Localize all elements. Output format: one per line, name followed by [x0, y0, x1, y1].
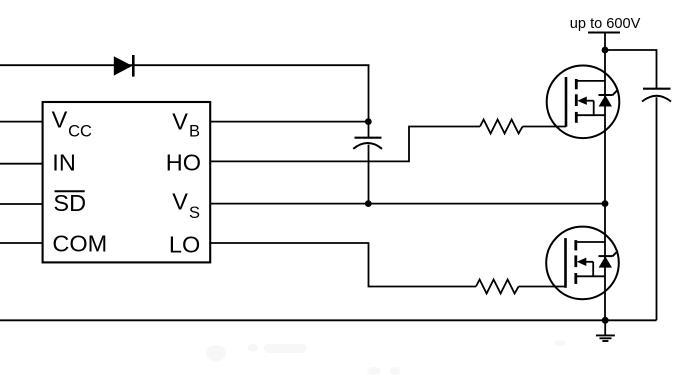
Q1 source stub — [576, 114, 605, 116]
Q2 channel dash bottom — [574, 273, 577, 284]
wire: bootstrap vertical (top rail down to cap) — [368, 65, 370, 137]
svg-text:SD: SD — [53, 190, 86, 216]
Q2 channel dash middle — [574, 255, 577, 267]
transistor Q2 low-side MOSFET — [546, 227, 619, 300]
Q1 body arrow — [580, 100, 594, 102]
wire: HO pin to high-side gate resistor — [209, 127, 480, 162]
svg-text:HO: HO — [166, 150, 201, 176]
node: VS bootstrap-return junction — [365, 200, 372, 207]
svg-text:IN: IN — [52, 149, 76, 175]
Q2 gate bar — [564, 238, 567, 288]
diode D1 bootstrap — [114, 55, 135, 77]
node: ground junction — [602, 317, 609, 324]
Q1 channel dash top — [575, 79, 578, 89]
Q2 body arrow — [580, 261, 594, 263]
wire: COM input — [0, 242, 42, 244]
node: VS half-bridge junction — [602, 200, 609, 207]
transistor Q1 high-side MOSFET — [547, 66, 620, 139]
wire: bootstrap cap to VS rail — [368, 145, 370, 204]
svg-text:COM: COM — [52, 231, 107, 257]
pin label SD overline — [55, 190, 85, 192]
wire: bus capacitor to ground rail — [656, 97, 658, 320]
svg-text:LO: LO — [169, 231, 200, 257]
capacitor C2 bus: curved bottom plate — [642, 96, 671, 102]
Q2 drain stub — [576, 241, 605, 243]
wire: HV node to bus capacitor — [605, 50, 657, 88]
wire: top bootstrap supply rail — [0, 64, 370, 66]
Q1 channel dash bottom — [575, 112, 578, 123]
capacitor C1 bootstrap: curved bottom plate — [353, 143, 382, 149]
capacitor C1 bootstrap: top plate — [355, 137, 382, 139]
Q1 gate bar — [565, 77, 568, 127]
Q1 body-to-source link — [593, 101, 595, 116]
Q2 body-to-source link — [592, 262, 594, 277]
svg-text:up to 600V: up to 600V — [570, 16, 641, 32]
Q2 body circle — [546, 227, 619, 300]
wire: LO pin to low-side gate resistor — [209, 243, 476, 287]
capacitor C2 bus: top plate — [643, 88, 671, 90]
wire: IN input — [0, 163, 42, 165]
wire: VB pin to bootstrap node — [209, 121, 369, 123]
node: HV input junction — [602, 47, 609, 54]
Q2 channel dash top — [574, 240, 577, 250]
Q1 body diode — [599, 95, 612, 106]
Q1 channel dash middle — [575, 94, 578, 106]
wire: R2 to Q2 gate — [519, 286, 566, 288]
resistor R2 low-side gate — [476, 280, 519, 294]
wire: VS rail — [209, 203, 605, 205]
Q2 source stub — [576, 275, 605, 277]
wire: SD input — [0, 203, 42, 205]
Q2 body diode — [599, 256, 612, 267]
watermark smudges (faint) — [206, 340, 566, 375]
wire: HV bus top T-bar — [588, 32, 620, 34]
IC U1 gate driver body — [43, 102, 211, 262]
ground — [596, 320, 615, 341]
wire: HV bus vertical — [604, 33, 606, 321]
wire: VCC input — [0, 121, 42, 123]
Q1 drain stub — [576, 80, 605, 82]
Q1 body circle — [547, 66, 620, 139]
node: VB junction — [365, 118, 372, 125]
wire: R1 to Q1 gate — [523, 126, 566, 128]
resistor R1 high-side gate — [480, 120, 523, 134]
wire: ground rail — [0, 319, 657, 321]
